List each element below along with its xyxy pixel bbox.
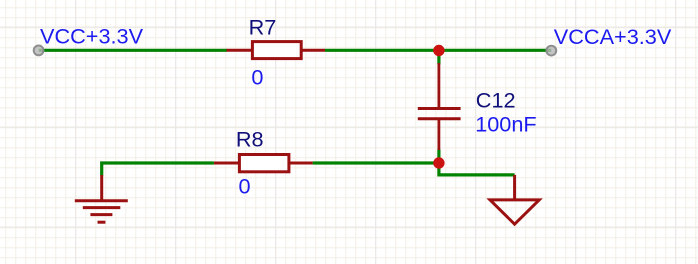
resistor R7 bbox=[227, 42, 326, 59]
GND triangle symbol (right) bbox=[490, 175, 539, 224]
pin terminal VCCA+3.3V bbox=[546, 46, 556, 56]
node A junction dot bbox=[433, 45, 444, 56]
wire VCC+3.3V to R7 pin 1 bbox=[39, 49, 227, 52]
svg-text:R8: R8 bbox=[236, 126, 264, 151]
svg-text:R7: R7 bbox=[249, 14, 277, 39]
earth ground symbol (left) bbox=[75, 175, 128, 222]
svg-text:100nF: 100nF bbox=[475, 112, 537, 137]
major grid line x=575.6 bbox=[575, 0, 577, 264]
resistor R8 bbox=[214, 155, 313, 172]
svg-text:C12: C12 bbox=[476, 87, 516, 112]
major grid line x=375.6 bbox=[375, 0, 377, 264]
major grid line x=275.6 bbox=[275, 0, 277, 264]
svg-text:VCC+3.3V: VCC+3.3V bbox=[40, 23, 144, 48]
wire node A down to C12 pin 1 bbox=[437, 50, 440, 64]
svg-text:VCCA+3.3V: VCCA+3.3V bbox=[554, 24, 672, 49]
wire R7 pin 2 to VCCA pin, through node A bbox=[325, 49, 552, 52]
major grid line x=675.6 bbox=[675, 0, 677, 264]
wire node B down and right to GND symbol bbox=[439, 163, 515, 175]
node B junction dot bbox=[433, 157, 444, 168]
wire R8 pin 2 to node B bbox=[313, 161, 439, 164]
svg-text:0: 0 bbox=[239, 173, 251, 198]
major grid line x=475.6 bbox=[475, 0, 477, 264]
wire C12 pin 2 down to node B bbox=[437, 150, 440, 164]
major grid line y=227 bbox=[0, 226, 698, 228]
major grid line y=127 bbox=[0, 126, 698, 128]
capacitor C12 bbox=[418, 63, 461, 150]
wire left ground riser to R8 pin 1 bbox=[102, 163, 214, 176]
pin terminal VCC+3.3V bbox=[34, 46, 44, 56]
major grid line y=27 bbox=[0, 26, 698, 28]
major grid line x=175.6 bbox=[175, 0, 177, 264]
svg-text:0: 0 bbox=[251, 65, 263, 90]
major grid line x=75.6 bbox=[75, 0, 77, 264]
